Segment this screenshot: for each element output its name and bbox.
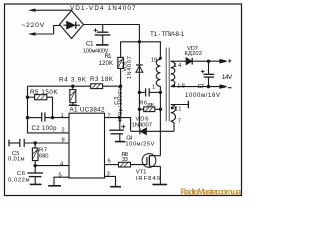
wire feedback row [28, 85, 91, 87]
svg-text:8: 8 [62, 138, 65, 144]
transformer T1 secondary winding (pins 14-18) [171, 61, 175, 86]
svg-text:0,01м: 0,01м [8, 157, 25, 163]
wire pin 7 Vcc row [105, 118, 131, 132]
svg-text:R5 150K: R5 150K [30, 89, 58, 96]
wire pin 11 stub [171, 104, 188, 106]
terminal bar pin 11 [187, 101, 189, 108]
svg-text:IRF840: IRF840 [136, 176, 160, 182]
wire output minus arrow [220, 85, 227, 88]
svg-text:A1 UC3842: A1 UC3842 [70, 107, 105, 114]
resistor R8 [119, 162, 147, 167]
node C7 bottom [207, 85, 210, 88]
node R4 top [71, 85, 74, 88]
node left rail / pin1 row [26, 116, 29, 119]
wire pin 5 to ground [54, 177, 69, 185]
diode bridge VD1-VD4 [60, 11, 84, 39]
svg-text:3: 3 [107, 172, 110, 178]
transformer T1 aux winding (pins 11-7) [171, 105, 176, 122]
wire drain rail [159, 86, 161, 155]
minus output terminal sign [228, 87, 232, 89]
svg-text:Т1 - ТПИ-8-1: Т1 - ТПИ-8-1 [150, 31, 184, 38]
wire primary top [139, 42, 160, 60]
svg-text:1N4007: 1N4007 [132, 123, 153, 129]
node R6 left [138, 108, 141, 111]
ground (R4 bottom) [69, 104, 77, 106]
svg-text:RadioMaster.com.ua: RadioMaster.com.ua [181, 188, 242, 197]
svg-text:1000м/16V: 1000м/16V [185, 93, 220, 99]
wire clamp chain upper [138, 42, 140, 65]
capacitor C4 [109, 118, 125, 142]
capacitor C2 on pin 1 row [28, 112, 70, 121]
svg-text:20K: 20K [147, 102, 155, 107]
ground (C4) [115, 141, 125, 143]
diode VD5 [136, 63, 143, 128]
node R5 riser on pin1 row [51, 116, 54, 119]
svg-text:6: 6 [108, 159, 111, 165]
svg-text:7: 7 [178, 118, 181, 124]
capacitor C1 [94, 25, 111, 45]
wire pin 7 aux to VD6 row [171, 121, 174, 131]
node C3 left [138, 91, 141, 94]
wire pin 3 to ground [105, 176, 116, 186]
wire pin 14 to VD7 [171, 60, 187, 62]
resistor R1 [118, 42, 140, 86]
node R3 right / R1 column [119, 85, 122, 88]
wire output plus arrow [220, 60, 227, 63]
svg-text:33: 33 [122, 157, 128, 163]
svg-text:R6: R6 [139, 100, 147, 106]
capacitor C3 [139, 88, 160, 96]
svg-text:VD6: VD6 [136, 116, 149, 122]
arrowhead AC line 1 [28, 9, 36, 12]
diode VD7 [186, 58, 220, 65]
svg-text:R3 18K: R3 18K [90, 76, 114, 83]
svg-text:C6: C6 [17, 171, 25, 177]
overline A1 [69, 105, 79, 107]
transistor Q1 : VT1 IRF840 MOSFET [142, 154, 160, 184]
resistor R6 [139, 107, 160, 112]
svg-text:19: 19 [151, 57, 157, 63]
svg-text:120K: 120K [99, 61, 114, 67]
svg-text:VT1: VT1 [136, 170, 147, 176]
node pin 18 phase dot [172, 84, 175, 87]
wire R1 bottom to Vcc node [120, 86, 122, 117]
svg-text:18: 18 [177, 83, 185, 89]
svg-text:C2 100p: C2 100p [32, 126, 58, 132]
node VD7 / C7 top [207, 60, 210, 63]
wire left rail [28, 86, 70, 133]
ground (C1 minus) [96, 44, 108, 46]
svg-text:470p/1000V: 470p/1000V [118, 87, 124, 122]
svg-text:0,022м: 0,022м [8, 178, 30, 184]
capacitor C6 [27, 166, 43, 184]
wire AC line 1 (top input) [34, 9, 72, 11]
transformer T1 primary winding (pins 19-1) [156, 59, 160, 86]
svg-text:R4 3,9K: R4 3,9K [59, 77, 87, 84]
resistor R5 [28, 95, 53, 118]
svg-text:14: 14 [174, 63, 182, 69]
node C3 right [159, 91, 162, 94]
svg-text:1N4007: 1N4007 [127, 56, 133, 79]
svg-text:100м/25V: 100м/25V [125, 141, 154, 147]
wire pin 4 row [35, 165, 69, 167]
node pin 19 phase dot [159, 57, 162, 60]
ground (VT1 source) [152, 184, 167, 186]
wire pin 6 row [105, 164, 119, 166]
diode VD6 [131, 128, 174, 134]
transformer T1 core [166, 48, 169, 122]
capacitor C7 [201, 61, 214, 86]
svg-text:R1: R1 [105, 54, 113, 60]
svg-text:14V: 14V [222, 74, 233, 81]
ground (C6) [30, 183, 42, 185]
resistor R3 [91, 84, 121, 89]
capacitor C5 / pin 8 row [9, 139, 69, 147]
svg-text:КД202: КД202 [185, 51, 203, 57]
node R7 top [34, 141, 37, 144]
wire input step to bridge left vertex [54, 26, 61, 35]
svg-text:7: 7 [107, 113, 110, 119]
node R1 top / +310V junction [138, 40, 141, 43]
wire AC line 2 (bottom input) [34, 33, 54, 35]
wire +310V top rail [84, 25, 140, 42]
svg-text:C1: C1 [86, 41, 94, 47]
border frame [5, 4, 242, 196]
node Vcc / C4 [118, 116, 121, 119]
wire pin 18 output minus row [171, 86, 221, 88]
svg-text:5: 5 [59, 173, 62, 179]
svg-text:C7: C7 [198, 84, 205, 90]
op-amp U1 : IC A1 UC3842 body [69, 113, 105, 178]
arrowhead AC line 2 [28, 32, 36, 35]
svg-text:2: 2 [62, 128, 65, 134]
node R5 left [26, 96, 29, 99]
plus output terminal sign [228, 59, 232, 63]
svg-text:1: 1 [152, 85, 155, 91]
svg-text:~220V: ~220V [22, 22, 45, 29]
svg-text:11: 11 [175, 106, 182, 112]
resistor R4 [70, 86, 76, 105]
svg-text:680: 680 [39, 154, 49, 160]
node R7 bottom / pin 4 row [34, 164, 37, 167]
resistor R7 [32, 143, 38, 166]
ground (pin 3) [110, 186, 121, 188]
node pin 11 phase dot [171, 106, 174, 109]
node R6 right [159, 108, 162, 111]
ground (pin 5) [48, 185, 61, 187]
svg-text:1: 1 [61, 113, 64, 119]
